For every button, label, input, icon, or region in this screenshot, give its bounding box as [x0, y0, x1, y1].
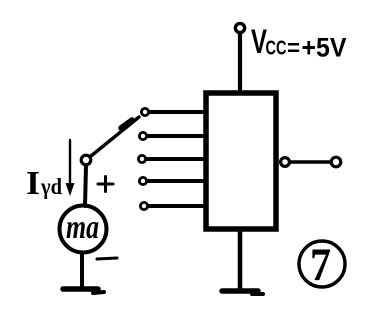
ground bottom	[222, 291, 263, 294]
svg-text:ma: ma	[66, 209, 99, 246]
ground left	[63, 289, 104, 293]
node switch pivot	[81, 155, 91, 165]
label plus	[98, 177, 113, 192]
svg-text:I: I	[26, 165, 40, 202]
svg-text:γd: γd	[40, 174, 62, 199]
output terminal 2	[331, 157, 341, 167]
svg-text:+5V: +5V	[302, 33, 347, 63]
meter M1 ma	[60, 206, 107, 253]
wire output	[290, 160, 330, 164]
wire meter to ground	[80, 253, 84, 288]
input terminal 3	[138, 155, 206, 162]
input terminal 2	[139, 132, 206, 139]
output terminal 1	[281, 158, 290, 167]
current arrow Ird	[66, 140, 75, 196]
IC U1	[206, 93, 276, 229]
wire Vcc to IC top	[238, 34, 242, 94]
wire node to meter	[85, 166, 86, 206]
input terminal 4	[139, 177, 206, 184]
svg-text:=: =	[287, 35, 300, 61]
switch arm S1	[91, 117, 139, 156]
input terminal 1	[141, 108, 206, 115]
label figure number 7	[299, 239, 345, 291]
label Vcc=+5V	[251, 23, 347, 63]
label minus	[97, 258, 117, 259]
svg-text:7: 7	[310, 239, 331, 291]
label Ird	[26, 165, 62, 202]
terminal Vcc	[235, 23, 244, 32]
wire IC bottom to ground	[238, 231, 243, 289]
input terminal 5	[140, 202, 206, 209]
svg-text:CC: CC	[266, 37, 287, 60]
